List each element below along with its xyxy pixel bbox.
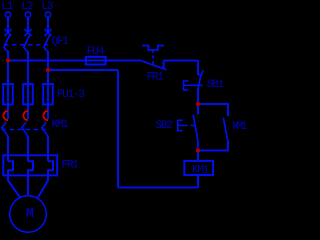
wire control top right xyxy=(164,60,198,62)
wire coil top xyxy=(197,151,199,161)
svg-text:KM1: KM1 xyxy=(192,164,210,176)
svg-text:L2: L2 xyxy=(22,1,33,13)
wire SB1 top terminal xyxy=(197,61,199,75)
contactor KM1 main pole2 arc xyxy=(23,111,28,120)
motor M circle xyxy=(10,196,47,233)
node L2 terminal circle xyxy=(25,12,30,17)
svg-text:FU4: FU4 xyxy=(87,46,105,58)
wire coil bottom xyxy=(197,175,199,188)
relay FR1 NC contact terminal xyxy=(163,61,165,70)
fuse FU2 body xyxy=(23,84,33,104)
contactor KM1 linkage dashed xyxy=(2,129,51,131)
relay FR1 thermal link dashed xyxy=(152,50,154,64)
wire KM1 aux bottom xyxy=(198,141,228,151)
button SB2 blade xyxy=(193,115,198,141)
relay FR1 thermal element symbol xyxy=(142,46,164,51)
button SB1 fixed contact tick xyxy=(198,74,202,76)
svg-text:FR1: FR1 xyxy=(62,160,80,172)
button SB1 cap bracket xyxy=(184,81,189,90)
fuse FU4 body xyxy=(86,57,106,65)
svg-text:L3: L3 xyxy=(42,1,53,13)
fuse FU1 body xyxy=(3,84,13,104)
contactor KM1 main pole3 blade xyxy=(42,122,49,137)
relay FR1 heater box xyxy=(3,155,57,175)
wire motor lead right xyxy=(38,175,48,197)
breaker QF1 pole1 blade xyxy=(4,35,10,51)
wire SB2 top terminal xyxy=(197,104,199,115)
wire bus phase A xyxy=(8,60,140,62)
button SB1 actuator rod xyxy=(184,84,203,86)
fuse FU3 body xyxy=(43,84,53,104)
wire branch to KM1 aux xyxy=(198,104,228,116)
junction bus-L1 xyxy=(6,58,10,62)
wire motor lead mid xyxy=(27,175,29,196)
node L1 terminal circle xyxy=(5,12,10,17)
wire pole1 lower vertical xyxy=(7,137,9,161)
button SB2 cap bracket xyxy=(178,120,183,130)
relay FR1 heater element pole2 xyxy=(28,161,33,175)
relay FR1 heater element pole3 xyxy=(48,161,53,175)
contactor KM1 main pole3 arc xyxy=(43,111,48,120)
junction SB1 bottom xyxy=(196,102,200,106)
node L3 terminal circle xyxy=(45,12,50,17)
svg-text:QF1: QF1 xyxy=(52,36,70,48)
wire pole2 lower vertical xyxy=(27,137,29,161)
wire SB1 bottom xyxy=(197,88,199,104)
button SB2 actuator rod xyxy=(178,124,188,126)
wire SB2 bottom xyxy=(197,140,199,151)
button SB2 actuator tick xyxy=(191,124,195,126)
breaker QF1 pole3 X mark xyxy=(45,29,52,36)
wire control return vertical xyxy=(117,70,119,188)
junction coil top xyxy=(196,148,200,152)
wire pole1 vertical xyxy=(7,51,9,119)
coil KM1 box xyxy=(184,161,213,175)
relay FR1 heater element pole1 xyxy=(8,161,13,175)
breaker QF1 pole2 X mark xyxy=(25,29,32,36)
wire motor lead left xyxy=(8,175,20,197)
breaker QF1 pole3 blade xyxy=(44,35,50,51)
svg-text:SB1: SB1 xyxy=(207,79,225,91)
breaker QF1 pole2 blade xyxy=(24,35,30,51)
wire control return bottom xyxy=(118,187,198,189)
junction L3 tap xyxy=(46,68,50,72)
contactor KM1 main pole2 blade xyxy=(22,122,29,137)
wire pole2 vertical xyxy=(27,51,29,119)
wire L1 drop xyxy=(7,17,9,32)
wire L3 drop xyxy=(47,17,49,32)
wire pole3 vertical xyxy=(47,51,49,119)
wire L2 drop xyxy=(27,17,29,32)
svg-text:L1: L1 xyxy=(2,1,14,13)
svg-text:FU1-3: FU1-3 xyxy=(57,89,85,101)
breaker QF1 linkage dashed xyxy=(4,44,48,46)
wire pole3 lower vertical xyxy=(47,137,49,161)
button SB1 blade xyxy=(198,70,203,88)
contactor KM1 main pole1 blade xyxy=(2,122,8,137)
contact KM1 aux blade xyxy=(223,118,228,141)
svg-text:SB2: SB2 xyxy=(156,120,173,132)
svg-text:FR1: FR1 xyxy=(147,71,165,83)
wire control return to L3 xyxy=(48,69,118,71)
svg-text:KM1: KM1 xyxy=(52,119,70,131)
contactor KM1 main pole1 arc xyxy=(3,111,8,120)
breaker QF1 pole1 X mark xyxy=(5,29,12,36)
relay FR1 NC contact blade xyxy=(140,60,167,70)
